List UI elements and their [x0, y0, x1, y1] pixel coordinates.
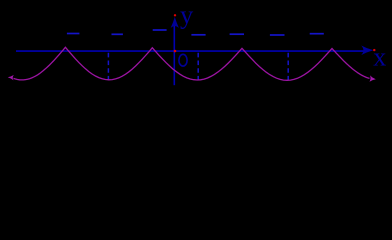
vertical dashed line at first minimum: [107, 53, 109, 80]
curve right arrowhead: [370, 75, 376, 81]
curve left arrowhead: [8, 75, 14, 81]
svg-text:y: y: [180, 0, 194, 30]
label O: [179, 54, 187, 66]
vertical dashed line at second minimum: [197, 53, 199, 81]
x-axis: [16, 50, 366, 52]
horizontal dash 1: [67, 33, 80, 35]
horizontal dash 5: [230, 33, 244, 35]
curve y=-|sin x|: [14, 47, 370, 80]
horizontal dash 6: [270, 34, 285, 36]
svg-text:x: x: [373, 43, 386, 72]
vertical dashed line at third minimum: [287, 53, 289, 80]
y-axis: [173, 21, 175, 85]
red dot at origin: [174, 50, 177, 53]
x-axis arrowhead: [361, 46, 373, 56]
horizontal dash 3: [153, 29, 167, 31]
horizontal dash 2: [112, 33, 123, 35]
horizontal dash 4: [191, 34, 205, 36]
y-axis arrowhead: [171, 17, 179, 28]
red dot above y arrow: [174, 14, 176, 16]
horizontal dash 7: [310, 33, 324, 35]
red dot at x arrow tip: [373, 49, 375, 51]
